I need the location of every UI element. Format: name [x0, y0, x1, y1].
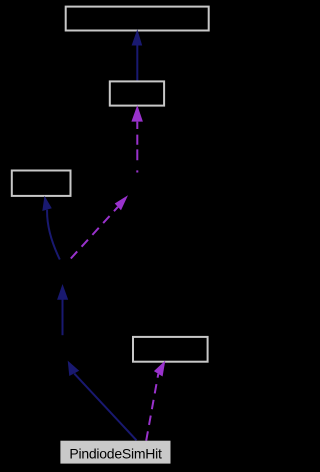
wire: solid inheritance edge box2 -> top box: [132, 29, 143, 80]
svg-text:PindiodeSimHit: PindiodeSimHit: [69, 445, 162, 461]
node: right class box: [133, 337, 208, 362]
wire: dashed usage edge PindiodeSimHit -> right box: [146, 361, 165, 441]
wire: dashed usage edge (invisible node B1) -> box2: [131, 105, 143, 172]
wire: solid inheritance edge PindiodeSimHit -> node B3: [68, 361, 137, 441]
wire: solid inheritance edge node B3 -> node B2 (vertical): [57, 284, 68, 335]
node: top base class box (label hidden on dark bg): [66, 7, 209, 31]
node: left class box: [12, 171, 71, 196]
wire: solid inheritance edge node B2 -> left box: [42, 196, 60, 260]
node: PindiodeSimHit (current class): [60, 441, 170, 464]
node: second-level class box: [110, 81, 164, 105]
wire: dashed usage edge node B2 -> B1 (diagonal): [71, 195, 128, 258]
